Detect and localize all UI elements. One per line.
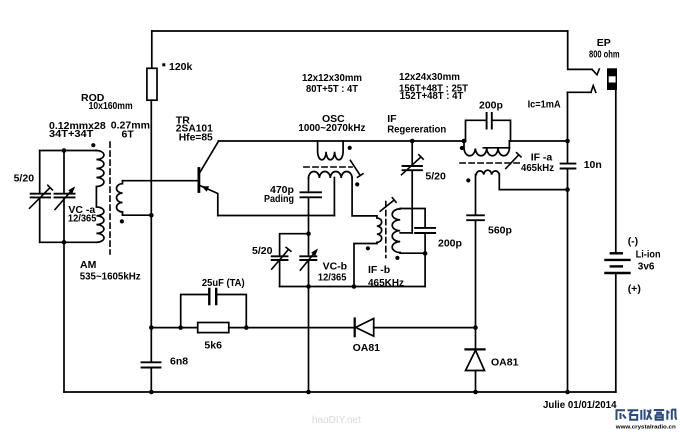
wire to diode D1 [246, 327, 354, 329]
wire plug to battery [615, 90, 617, 252]
node 25uF right [244, 325, 249, 330]
wire emitter line [218, 215, 335, 217]
svg-text:5k6: 5k6 [204, 340, 222, 352]
node diode junction [473, 325, 478, 330]
variable capacitor VC-b plates [300, 256, 316, 260]
wire VC-b bottom rail [280, 286, 426, 288]
svg-text:OA81: OA81 [491, 357, 519, 369]
svg-text:Hfe=85: Hfe=85 [179, 132, 213, 144]
resistor R2 5k6 [198, 323, 229, 333]
capacitor C 25uF branch [181, 295, 247, 328]
svg-text:(+): (+) [628, 283, 641, 295]
node IF-b primary bottom rail [352, 284, 357, 289]
wire top rail left drop [151, 31, 153, 68]
node out right [565, 187, 570, 192]
variable capacitor VC-a arrow [55, 188, 74, 209]
svg-text:5/20: 5/20 [425, 171, 446, 183]
node VC-a bottom [62, 240, 67, 245]
wire IF-b secondary bottom [400, 252, 425, 254]
transformer T2 OSC secondary [309, 171, 353, 178]
variable capacitor VC-b arrow [300, 251, 316, 271]
svg-text:12x24x30mm: 12x24x30mm [399, 71, 460, 83]
polarity dot T1 secondary [120, 219, 124, 223]
node IF-a left [462, 139, 467, 144]
wire D1 to node [374, 327, 476, 329]
node D2 ground [473, 390, 478, 395]
wire 120k bottom down to 6n8 [150, 100, 152, 361]
svg-text:12/365: 12/365 [318, 271, 347, 283]
logo crystalradio chinese [615, 409, 677, 430]
wire node to D2 [475, 328, 477, 349]
node VC-b bottom [306, 284, 311, 289]
svg-text:haoDIY.net: haoDIY.net [312, 415, 361, 426]
capacitor C 6n8 [142, 362, 161, 367]
polarity dot T3 secondary [395, 256, 399, 260]
svg-text:10x160mm: 10x160mm [89, 100, 133, 112]
wire IF-b node down to rail [424, 253, 426, 286]
svg-text:Pading: Pading [264, 193, 294, 205]
core dashed T1 [109, 142, 111, 254]
trimmer C3 slash [402, 155, 424, 175]
label 120k [162, 61, 192, 73]
wire 5k6 right [229, 327, 247, 329]
variable capacitor VC-a leg [63, 151, 65, 243]
svg-text:120k: 120k [169, 61, 193, 73]
node base-bias / secondary bottom [149, 213, 154, 218]
jack lower contact wire [568, 91, 592, 93]
svg-text:Li-ion: Li-ion [636, 250, 661, 261]
wire IF-a primary tap [483, 147, 509, 149]
node regen rail [410, 139, 415, 144]
resistor R1 120k [147, 68, 157, 100]
diode D2 OA81 triangle [466, 350, 485, 370]
wire D2 to ground [475, 371, 477, 393]
wire antenna tank bottom [40, 241, 97, 243]
wire antenna tank top [40, 150, 97, 152]
node VC-b ground [306, 390, 311, 395]
trimmer C1 slash [30, 185, 53, 208]
wire 200p to node [424, 234, 426, 254]
core dashed T2 [304, 166, 352, 168]
wire IF-a sec left to 560p [475, 175, 477, 215]
diode D2 OA81 cathode bar [466, 348, 485, 350]
svg-text:AM: AM [80, 259, 97, 271]
transistor Q1 2SA101 base bar [197, 169, 200, 192]
polarity dot T4 secondary [466, 178, 470, 182]
wire trimmer branch bottom [279, 261, 281, 287]
polarity dot T2 primary [348, 146, 352, 150]
earphone plug EP [607, 68, 617, 90]
svg-text:5/20: 5/20 [14, 173, 35, 185]
node 25uF left [178, 325, 183, 330]
svg-text:34T+34T: 34T+34T [49, 128, 94, 140]
trimmer C3 5/20 regen plates [403, 166, 422, 170]
node right ground [565, 390, 570, 395]
transformer T2 OSC primary [318, 141, 344, 160]
wire IF-b secondary top [400, 209, 425, 227]
wire base [123, 180, 198, 182]
wire 5k6 line left [151, 327, 197, 329]
wire top rail [152, 30, 568, 32]
trimmer C1 5/20 left leg [39, 151, 41, 243]
capacitor C 10n plates [561, 164, 576, 169]
wire VC-b to ground [308, 287, 310, 393]
wire regen riser [411, 141, 413, 233]
capacitor C 200p IF-b plates [415, 228, 435, 233]
svg-text:200p: 200p [438, 238, 462, 250]
variable capacitor VC-a plates [55, 194, 75, 198]
polarity dot T3 primary [366, 246, 370, 250]
transistor Q1 emitter [200, 186, 218, 216]
transformer T1 primary coil [96, 151, 104, 243]
wire right column upper [567, 92, 569, 162]
slash T2 core [350, 160, 363, 177]
trimmer C2 slash [272, 247, 291, 269]
wire IF-a secondary out [499, 175, 567, 190]
svg-text:6n8: 6n8 [170, 356, 188, 368]
core dashed T3 [385, 202, 387, 258]
transformer T3 IF-b primary coil [377, 216, 382, 244]
svg-text:Ic=1mA: Ic=1mA [528, 99, 561, 111]
svg-text:3v6: 3v6 [638, 262, 655, 273]
svg-text:IF -b: IF -b [368, 264, 390, 276]
capacitor C 560p plates [467, 215, 484, 220]
wire collector rail right [509, 140, 567, 142]
node VC-a top [62, 148, 67, 153]
wire trimmer branch top [280, 234, 309, 256]
core dashed T4 [460, 162, 520, 164]
node 6n8 ground [149, 390, 154, 395]
battery BT1 Li-ion [611, 252, 622, 254]
polarity dot T4 primary [460, 146, 464, 150]
wire secondary bottom [123, 214, 152, 216]
svg-text:OA81: OA81 [353, 342, 381, 354]
svg-text:(-): (-) [628, 236, 639, 248]
transformer T4 IF-a secondary coil [476, 170, 499, 174]
svg-text:www.crystalradio.cn: www.crystalradio.cn [615, 425, 677, 431]
transformer T1 secondary coil [116, 181, 122, 216]
variable capacitor VC-b leg [308, 234, 310, 287]
svg-text:EP: EP [597, 37, 611, 49]
polarity dot T1 primary [91, 143, 95, 147]
wire collector rail [218, 140, 465, 142]
svg-text:25uF (TA): 25uF (TA) [202, 277, 245, 289]
transistor Q1 emitter arrow [202, 186, 210, 192]
svg-text:535~1605kHz: 535~1605kHz [80, 271, 141, 283]
node 5k6 left [149, 325, 154, 330]
svg-text:6T: 6T [122, 129, 135, 141]
wire ground rail [64, 391, 616, 393]
capacitor C 470p plates [301, 192, 322, 197]
svg-text:Julie 01/01/2014: Julie 01/01/2014 [543, 399, 617, 411]
svg-text:Regereration: Regereration [387, 124, 446, 136]
wire battery to ground rail [615, 274, 617, 392]
svg-text:12/365: 12/365 [68, 213, 97, 225]
svg-text:80T+5T : 4T: 80T+5T : 4T [306, 83, 359, 95]
diode D1 OA81 triangle [356, 319, 374, 337]
svg-text:152T+48T : 4T: 152T+48T : 4T [400, 90, 464, 102]
wire right column lower [567, 169, 569, 392]
slash T3 core [380, 198, 396, 212]
transformer T4 IF-a primary coil [464, 141, 509, 156]
node collector rail / 10n [565, 139, 570, 144]
svg-text:465kHz: 465kHz [521, 162, 554, 174]
svg-text:800 ohm: 800 ohm [589, 49, 620, 61]
trimmer C2 5/20 plates [272, 256, 288, 260]
jack lower contact [591, 86, 596, 93]
wire IF-b primary bottom [354, 244, 377, 287]
svg-text:200p: 200p [479, 99, 503, 111]
wire OSC sec left to 470p [308, 178, 310, 191]
capacitor C 200p IF-a bridge [466, 120, 511, 141]
transformer T3 IF-b secondary coil [392, 209, 400, 254]
node IF-b secondary bottom [423, 251, 428, 256]
trimmer C1 5/20 plates [31, 194, 50, 198]
svg-text:5/20: 5/20 [252, 245, 273, 257]
svg-text:465KHz: 465KHz [368, 277, 404, 289]
wire left drop to ground [63, 242, 65, 392]
polarity dot T2 secondary [355, 182, 359, 186]
slash T4 core [506, 153, 521, 169]
transistor Q1 collector [200, 142, 219, 173]
wire regen tap [400, 232, 412, 234]
diode D1 OA81 cathode bar [354, 319, 356, 337]
wire 6n8 to ground rail [150, 368, 152, 392]
wire 560p down to diode node [475, 221, 477, 328]
wire OSC tap drop [333, 178, 335, 216]
wire jack top feed [568, 31, 592, 69]
node 470p/VC-b top [306, 231, 311, 236]
wire 470p to node [308, 198, 310, 234]
wire OSC sec right drop to IF-b [352, 178, 377, 216]
svg-text:1000~2070kHz: 1000~2070kHz [298, 122, 365, 134]
svg-text:10n: 10n [584, 159, 602, 171]
svg-text:560p: 560p [488, 225, 512, 237]
jack top contact [592, 69, 599, 75]
